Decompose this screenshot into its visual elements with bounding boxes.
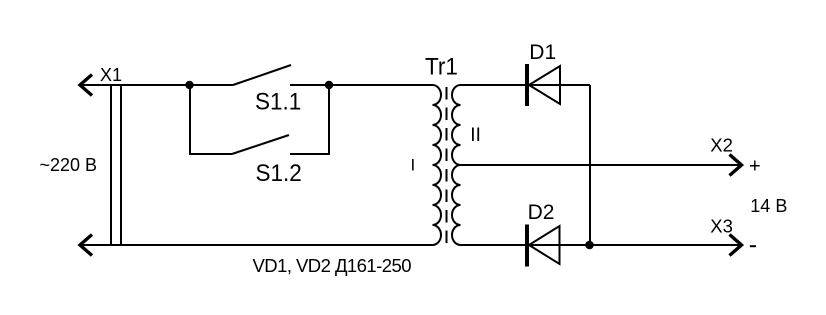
diode D1 triangle	[529, 66, 560, 104]
svg-text:~220 В: ~220 В	[40, 155, 98, 175]
wire: S1.2 branch right (right and up)	[290, 85, 329, 154]
connector X1 top arrow	[80, 75, 92, 96]
wire: top mains wire right of switch	[290, 84, 433, 86]
transformer Tr1 primary winding I	[433, 85, 442, 245]
diode D1 cathode bar	[525, 64, 529, 106]
svg-text:S1.2: S1.2	[256, 159, 302, 186]
wire: right bus vertical	[589, 85, 591, 245]
svg-text:+: +	[749, 155, 761, 177]
wire: center tap to X2	[461, 164, 742, 166]
node junction dot right	[325, 81, 333, 89]
connector X1 pin line 2	[120, 85, 122, 245]
svg-text:X1: X1	[100, 65, 122, 85]
diode D2 triangle	[529, 226, 560, 264]
transformer Tr1 secondary winding II	[452, 85, 461, 245]
svg-text:14 В: 14 В	[750, 196, 787, 216]
node junction dot bus-bottom	[585, 241, 594, 250]
wire: secondary top lead to bus	[461, 84, 591, 86]
connector X1 bottom arrow	[80, 235, 92, 256]
connector X2 arrow	[730, 155, 742, 176]
switch S1.1 blade	[233, 65, 291, 85]
transformer Tr1 core (dashed)	[446, 87, 448, 243]
connector X3 arrow	[730, 235, 742, 256]
wire: secondary bottom lead to X3	[461, 244, 742, 246]
connector X1 pin line 1	[110, 85, 112, 245]
label minus	[750, 245, 756, 247]
svg-text:S1.1: S1.1	[255, 88, 301, 115]
svg-text:X2: X2	[710, 135, 733, 156]
wire: bottom mains wire	[80, 244, 433, 246]
wire: top mains wire left of switch	[80, 84, 233, 86]
svg-text:D1: D1	[529, 41, 556, 64]
wire: S1.2 branch left (down and right)	[190, 85, 232, 154]
diode D2 cathode bar	[525, 225, 529, 267]
svg-text:D2: D2	[528, 201, 555, 224]
switch S1.2 blade	[232, 135, 289, 154]
svg-text:II: II	[470, 125, 481, 146]
svg-text:I: I	[411, 156, 416, 175]
svg-text:VD1, VD2 Д161-250: VD1, VD2 Д161-250	[253, 255, 412, 276]
node junction dot left	[185, 81, 193, 89]
svg-text:Tr1: Tr1	[425, 53, 458, 80]
svg-text:X3: X3	[710, 216, 733, 237]
